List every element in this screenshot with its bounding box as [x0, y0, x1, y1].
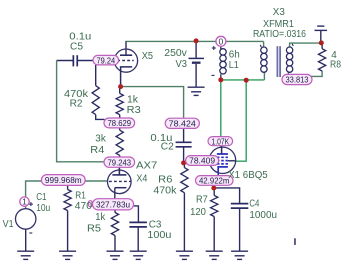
transformer X3 primary winding: [261, 47, 267, 53]
wire: X1 grid wire: [184, 162, 217, 164]
wire: V1 to X4 grid (C1 behind value box): [26, 181, 108, 209]
wire: X1 cathode below box: [213, 185, 215, 188]
svg-text:470k: 470k: [153, 186, 177, 197]
node voltage box 78.409: [186, 156, 219, 166]
capacitor C4: [231, 203, 249, 205]
L1 plus mark: [212, 47, 216, 49]
capacitor C3: [129, 221, 147, 223]
wire: X4 cathode lead into box: [114, 188, 116, 200]
ground for R6: [176, 250, 193, 252]
svg-text:78.424: 78.424: [169, 119, 196, 129]
V1 minus mark: [29, 232, 32, 234]
ground for V1: [17, 250, 34, 252]
wire: primary bottom lead: [263, 72, 265, 80]
transformer secondary polarity tick: [292, 44, 293, 46]
svg-text:78.629: 78.629: [108, 118, 132, 128]
svg-text:33.813: 33.813: [286, 75, 309, 85]
ground above R8 (output ground): [315, 29, 328, 31]
svg-text:L1: L1: [229, 60, 239, 71]
resistor R1: [67, 184, 69, 190]
wire: X5 grid wire from C5: [78, 60, 118, 62]
svg-text:C1: C1: [36, 192, 47, 203]
svg-text:1k: 1k: [95, 212, 106, 223]
node 1 bubble: [20, 197, 29, 206]
svg-text:1: 1: [22, 197, 27, 207]
node voltage box 327.783u: [93, 199, 134, 210]
wire: X1 screen drop and stub: [236, 80, 247, 161]
svg-text:79.24: 79.24: [97, 55, 116, 65]
wire: L1 top lead: [220, 46, 222, 49]
svg-text:C5: C5: [70, 41, 83, 52]
wire: X5 cathode to C2: [121, 87, 184, 119]
wire: C2 top lead: [183, 119, 185, 142]
wire: plate supply horizontal (L1 bottom to primary bottom): [221, 79, 265, 81]
wire: X4 plate lead: [118, 162, 120, 175]
wire: secondary top lead to R8 node: [290, 43, 322, 47]
small bracket mark: [89, 201, 92, 207]
source V1: [16, 209, 36, 229]
junction X1 cathode node: [211, 186, 216, 191]
node voltage box 33.813: [282, 74, 312, 84]
triode X5: [114, 49, 137, 72]
svg-text:AX7: AX7: [136, 160, 158, 171]
junction L1 bottom: [218, 77, 223, 82]
svg-text:42.922m: 42.922m: [199, 176, 230, 186]
junction screen branch: [244, 78, 249, 83]
svg-text:R4: R4: [90, 145, 104, 156]
wire: output ground stem: [320, 30, 322, 43]
node voltage box 1.07K: [208, 137, 233, 146]
ground for V3: [188, 86, 205, 88]
wire: screen lead into tube: [228, 160, 236, 162]
resistor R8: [319, 49, 326, 71]
V1 ground lead: [25, 229, 27, 251]
wire: L1 bottom lead: [220, 74, 222, 80]
svg-text:X1 6BQ5: X1 6BQ5: [228, 170, 268, 181]
svg-text:C2: C2: [161, 141, 174, 152]
wire: transformer primary top lead drop: [263, 41, 265, 46]
node voltage box 79.24: [93, 55, 119, 65]
node 0 bubble: [216, 36, 226, 46]
resistor R2: [95, 65, 97, 86]
ground for C4: [231, 250, 248, 252]
ground for R7: [206, 250, 223, 252]
svg-text:1000u: 1000u: [249, 210, 277, 221]
node voltage box 78.629: [104, 118, 135, 128]
svg-text:R5: R5: [87, 224, 101, 235]
node voltage box 79.243: [104, 157, 135, 167]
svg-text:100u: 100u: [147, 230, 171, 241]
node voltage box 999.968m: [41, 175, 85, 186]
svg-text:470: 470: [75, 201, 93, 212]
junction R8 top: [319, 40, 324, 45]
svg-text:999.968m: 999.968m: [45, 175, 82, 185]
svg-text:X5: X5: [142, 51, 154, 62]
svg-text:R3: R3: [127, 105, 141, 116]
ground for R5: [107, 250, 124, 252]
svg-text:78.409: 78.409: [189, 156, 215, 166]
svg-text:C4: C4: [249, 199, 259, 210]
resistor R5: [114, 210, 116, 213]
wire: C2 bottom lead to grid node: [183, 147, 185, 163]
junction X1 grid node: [181, 160, 186, 165]
L1 minus mark: [212, 74, 215, 76]
ground for C3: [130, 250, 147, 252]
ground for R1: [59, 250, 76, 252]
svg-text:R1: R1: [75, 191, 86, 202]
svg-text:XFMR1: XFMR1: [263, 19, 294, 30]
transformer X3 secondary winding: [286, 47, 292, 53]
V1 plus mark: [29, 203, 33, 205]
node voltage box 42.922m: [196, 176, 234, 186]
svg-text:X4: X4: [136, 174, 147, 185]
wire: V3 bottom lead: [195, 64, 197, 87]
transformer X3 core: [277, 46, 279, 77]
svg-text:79.243: 79.243: [108, 157, 132, 167]
resistor R4: [119, 128, 121, 130]
wire: B+ top rail: [125, 40, 263, 42]
wire: feedback column C5 to X4 plate node: [57, 61, 120, 162]
svg-text:R6: R6: [158, 174, 173, 185]
wire: cathode node to C3 branch: [134, 206, 139, 222]
resistor R3: [119, 87, 121, 94]
svg-text:R2: R2: [70, 99, 83, 110]
wire: C5 left stub: [57, 60, 73, 62]
wire: R8 top lead: [321, 43, 323, 49]
svg-text:V3: V3: [176, 59, 188, 70]
wire: V3 top lead: [195, 41, 197, 57]
inductor L1: [220, 49, 226, 55]
svg-text:10u: 10u: [36, 203, 50, 214]
wire: secondary bottom lead through 33.813 box to R8: [288, 71, 322, 77]
pentode X1: [209, 147, 235, 173]
wire: X1 cathode to C4 branch: [214, 188, 240, 204]
svg-text:V1: V1: [3, 219, 14, 230]
capacitor C5: [73, 55, 75, 66]
wire: X5 plate lead: [125, 41, 127, 55]
wire: X1 plate drop: [220, 80, 222, 147]
svg-text:R7: R7: [196, 195, 208, 206]
svg-text:X3: X3: [273, 7, 285, 18]
svg-text:0: 0: [219, 36, 224, 46]
node voltage box 78.424: [165, 118, 199, 128]
svg-text:RATIO=.0316: RATIO=.0316: [253, 29, 306, 40]
junction V3 top on rail: [194, 38, 199, 43]
resistor R6: [183, 163, 185, 168]
transformer primary polarity tick: [260, 45, 261, 47]
svg-text:3k: 3k: [95, 133, 106, 144]
svg-text:327.783u: 327.783u: [96, 200, 130, 210]
triode X4: [108, 170, 132, 194]
text caret mark: [294, 238, 296, 245]
svg-text:120: 120: [190, 207, 206, 218]
svg-text:6h: 6h: [229, 50, 240, 61]
svg-text:1.07K: 1.07K: [212, 136, 230, 146]
svg-text:R8: R8: [330, 60, 341, 71]
svg-text:250v: 250v: [164, 48, 187, 59]
junction X5 cathode: [118, 84, 123, 89]
resistor R7: [213, 190, 215, 195]
capacitor C2: [176, 141, 192, 143]
battery V3: [189, 57, 205, 59]
